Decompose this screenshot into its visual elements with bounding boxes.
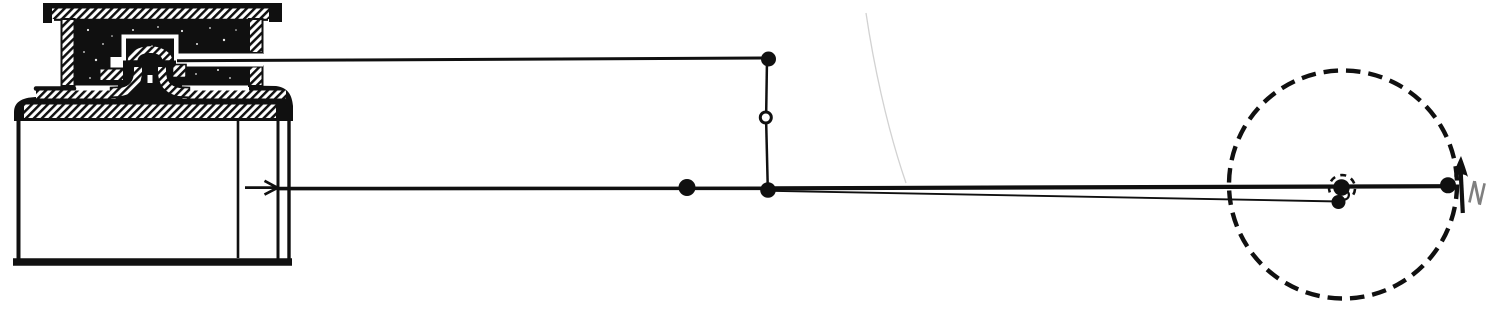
junction dot top [761, 52, 776, 67]
top plate (black top bar with end lips) [43, 3, 282, 23]
top wire [177, 58, 762, 61]
hatched arch [127, 45, 173, 61]
right column upper (hatched) [249, 19, 263, 53]
engraving speckles [83, 26, 237, 79]
jar bottom [13, 258, 292, 266]
bell left wall foot (hatched tube) [110, 67, 138, 93]
left step lower (hatched) [100, 69, 125, 82]
needle center dot [1333, 179, 1350, 196]
top plate band bottom edge [54, 19, 268, 21]
vertical wire upper [765, 59, 768, 112]
compass dashed circle [1229, 71, 1457, 299]
lid hatched band [24, 105, 276, 119]
wire dot left [679, 179, 696, 196]
top plate hatched band [52, 9, 269, 20]
faint scan crease [866, 13, 906, 183]
junction dot bottom [760, 182, 776, 198]
left step upper (white) [110, 56, 125, 69]
dome box (white frame) [122, 35, 179, 61]
vertical wire lower [766, 124, 768, 190]
flange foot line (right tip) [249, 86, 293, 118]
jar right wall outer line [287, 116, 290, 259]
dome box interior (black) [126, 39, 174, 61]
bottom wire (jar to junction) [278, 187, 769, 191]
jar inner vertical line [237, 121, 240, 258]
pivot hook [1342, 190, 1349, 200]
bell dome (black) [137, 53, 163, 98]
pivot lower dot [1332, 195, 1346, 209]
bell under-skirt black [118, 85, 182, 99]
wire channel (white slot) [176, 54, 263, 67]
lid (black rounded cap of jar) [14, 97, 293, 121]
jar right wall inner line [277, 116, 280, 259]
flange foot line (left tip) [36, 86, 74, 91]
N arrow head [1454, 156, 1468, 177]
bell right wall foot (hatched tube) [162, 67, 190, 93]
left column (hatched) [62, 19, 75, 86]
switch ring [760, 112, 771, 123]
bell clapper notch [148, 75, 153, 83]
needle line (junction to compass edge) [768, 186, 1447, 188]
flange hatched band [36, 91, 286, 99]
pivot small dashed circle [1329, 175, 1355, 196]
needle tip dot [1440, 177, 1456, 193]
right small step (hatched) [173, 65, 187, 78]
black interior block [74, 19, 249, 86]
N label [1469, 181, 1484, 205]
thin diverging wire to pivot [770, 191, 1339, 202]
current arrow inside jar [245, 181, 278, 195]
N arrow shaft [1461, 174, 1463, 213]
right column lower (hatched) [249, 67, 263, 87]
jar left wall [17, 120, 21, 260]
